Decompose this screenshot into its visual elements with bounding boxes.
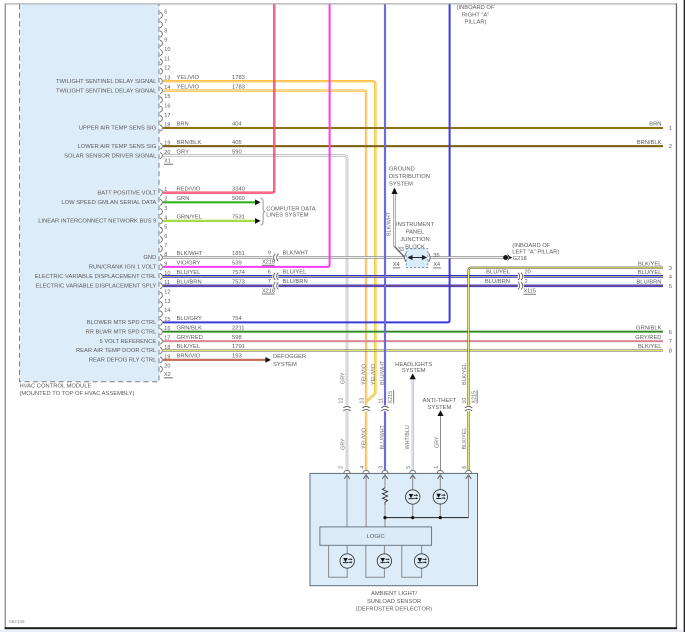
svg-text:WHT/BLU: WHT/BLU <box>405 425 411 449</box>
svg-text:DEFOGGER: DEFOGGER <box>273 354 306 360</box>
drawing number 562146 <box>9 619 25 624</box>
wire YEL/VIO 1783 pin13 X1 (to splice) <box>163 75 375 402</box>
logic block (sensor) <box>320 527 432 545</box>
label inboard of right A pillar <box>456 5 494 26</box>
svg-text:LOWER AIR TEMP SENS SIG: LOWER AIR TEMP SENS SIG <box>78 144 157 150</box>
wire WHT/BLU headlights drop to sensor pin 5 <box>412 379 414 473</box>
svg-text:SUNLOAD SENSOR: SUNLOAD SENSOR <box>367 599 421 605</box>
HVAC control module U1 (box) <box>20 4 160 381</box>
svg-text:ELECTRIC VARIABLE DISPLACEMENT: ELECTRIC VARIABLE DISPLACEMENT SPLY <box>35 284 156 290</box>
svg-text:7: 7 <box>164 19 167 25</box>
svg-text:16: 16 <box>164 104 170 110</box>
svg-text:UPPER AIR TEMP SENS SIG: UPPER AIR TEMP SENS SIG <box>79 126 157 132</box>
svg-text:5: 5 <box>164 225 167 231</box>
svg-text:SYSTEM: SYSTEM <box>273 362 297 368</box>
svg-text:6: 6 <box>164 10 167 16</box>
svg-text:ANTI-THEFT: ANTI-THEFT <box>422 398 456 404</box>
photodiode D5 output loop (sensor) <box>402 545 429 577</box>
ambient light / sunload sensor (box) <box>310 473 478 585</box>
svg-text:COMPUTER DATA: COMPUTER DATA <box>266 206 316 212</box>
sensor internal bus with junction dots <box>383 516 468 519</box>
svg-text:YEL/VIO: YEL/VIO <box>177 84 200 90</box>
svg-text:20: 20 <box>525 270 531 276</box>
svg-text:754: 754 <box>232 316 242 322</box>
svg-text:TWILIGHT SENTINEL DELAY SIGNAL: TWILIGHT SENTINEL DELAY SIGNAL <box>56 79 157 85</box>
labels after X215/X216 connectors <box>283 251 309 285</box>
svg-text:13: 13 <box>360 398 366 404</box>
svg-text:1: 1 <box>669 126 672 132</box>
svg-text:GRN/BLK: GRN/BLK <box>636 325 662 331</box>
HVAC control module caption <box>20 383 135 397</box>
arrow to anti-theft system <box>437 410 443 416</box>
svg-text:(INBOARD OF: (INBOARD OF <box>512 243 550 249</box>
svg-text:GRY: GRY <box>340 438 346 450</box>
svg-text:10: 10 <box>462 398 468 404</box>
svg-text:GRN/YEL: GRN/YEL <box>177 215 203 221</box>
svg-text:10: 10 <box>164 47 170 53</box>
svg-text:BRN: BRN <box>177 122 189 128</box>
brace computer data lines system <box>261 198 266 225</box>
svg-text:BLK/YEL: BLK/YEL <box>638 344 662 350</box>
svg-text:BLK/WHT: BLK/WHT <box>386 211 392 236</box>
wire GRN/BLK 2211 pin16 X2 to right edge <box>163 325 663 331</box>
svg-text:11: 11 <box>379 398 385 404</box>
svg-text:X115: X115 <box>524 289 536 295</box>
svg-text:REAR DEFOG RLY CTRL: REAR DEFOG RLY CTRL <box>89 358 157 364</box>
svg-text:20: 20 <box>164 364 170 370</box>
svg-text:6: 6 <box>669 330 672 336</box>
wire GRY 590 pin20 X1 to sensor pin 2 <box>163 149 347 473</box>
label inboard of left A pillar <box>512 243 559 256</box>
arrow to ground distribution system <box>391 188 397 194</box>
svg-text:598: 598 <box>232 335 242 341</box>
label ground distribution system <box>389 167 430 188</box>
svg-text:15: 15 <box>164 94 170 100</box>
connector X216 pin 7 (inline) <box>268 279 279 290</box>
svg-text:BLK/YEL: BLK/YEL <box>462 363 468 385</box>
svg-text:35: 35 <box>433 253 439 259</box>
rotated wire labels below X215 and on sensor feeds <box>340 425 468 450</box>
svg-text:6: 6 <box>462 466 468 469</box>
svg-text:GRY: GRY <box>340 372 346 384</box>
svg-text:3340: 3340 <box>232 186 245 192</box>
svg-text:GRY/RED: GRY/RED <box>635 335 661 341</box>
svg-text:SYSTEM: SYSTEM <box>427 405 451 411</box>
svg-text:GRY/RED: GRY/RED <box>177 335 203 341</box>
svg-text:(MOUNTED TO TOP OF HVAC ASSEMB: (MOUNTED TO TOP OF HVAC ASSEMBLY) <box>20 391 135 397</box>
junction block pin 33 bracket <box>398 247 406 262</box>
connector X216 label <box>262 288 275 294</box>
svg-text:9: 9 <box>268 251 271 257</box>
wire YEL/VIO 1783 pin14 X1 (to sensor pin 4) <box>163 84 366 473</box>
svg-text:LOGIC: LOGIC <box>367 534 385 540</box>
wire GRN/YEL 7531 pin4 X2 <box>163 215 256 221</box>
svg-text:HEADLIGHTS: HEADLIGHTS <box>395 362 432 368</box>
wire BLU/BRN 7573 pin11 X2 to right edge <box>163 280 663 286</box>
svg-text:X4: X4 <box>393 262 400 268</box>
svg-text:5 VOLT REFERENCE: 5 VOLT REFERENCE <box>99 339 156 345</box>
svg-text:DISTRIBUTION: DISTRIBUTION <box>389 174 430 180</box>
svg-text:1783: 1783 <box>232 75 245 81</box>
svg-text:BLK/WHT: BLK/WHT <box>283 251 309 257</box>
svg-text:SOLAR SENSOR DRIVER SIGNAL: SOLAR SENSOR DRIVER SIGNAL <box>64 153 157 159</box>
wire BLK/WHT ground branch vertical <box>395 189 405 257</box>
svg-text:X216: X216 <box>262 288 275 294</box>
svg-text:2211: 2211 <box>232 325 244 331</box>
svg-text:JUNCTION: JUNCTION <box>400 237 429 243</box>
wire BLK/WHT junction block to G218 <box>430 256 505 258</box>
svg-text:PILLAR): PILLAR) <box>465 20 487 26</box>
svg-text:3: 3 <box>669 266 672 272</box>
junction block internal bus double arrow <box>407 255 427 260</box>
sensor caption <box>356 591 432 612</box>
svg-text:6: 6 <box>268 270 271 276</box>
svg-text:BRN/BLK: BRN/BLK <box>177 140 202 146</box>
HVAC module connector X2 pins 1-20 (brackets and numbers) <box>160 187 173 378</box>
connector X215 pin 9 (inline) <box>268 251 279 262</box>
svg-text:GRN: GRN <box>177 196 190 202</box>
svg-text:33: 33 <box>398 247 404 253</box>
svg-text:RIGHT “A”: RIGHT “A” <box>462 12 489 18</box>
svg-text:HVAC CONTROL MODULE: HVAC CONTROL MODULE <box>20 383 92 389</box>
svg-text:YEL/VIO: YEL/VIO <box>371 364 377 385</box>
svg-text:BLU/YEL: BLU/YEL <box>283 270 308 276</box>
svg-text:1: 1 <box>434 466 440 469</box>
svg-text:1783: 1783 <box>232 84 245 90</box>
svg-text:AMBIENT LIGHT/: AMBIENT LIGHT/ <box>371 591 417 597</box>
svg-text:5060: 5060 <box>232 196 245 202</box>
svg-text:BLOWER MTR SPD CTRL: BLOWER MTR SPD CTRL <box>87 320 157 326</box>
svg-text:3: 3 <box>164 206 167 212</box>
svg-text:TWILIGHT SENTINEL DELAY SIGNAL: TWILIGHT SENTINEL DELAY SIGNAL <box>56 88 157 94</box>
connector X215 pin 10 (BLK/YEL vertical) <box>462 398 472 412</box>
svg-text:BLU/BRN: BLU/BRN <box>177 280 202 286</box>
svg-text:BLK/YEL: BLK/YEL <box>462 428 468 450</box>
wire BLU/GRY 754 pin15 X2 riser to top <box>163 4 450 322</box>
sensor pin sockets and arrows <box>344 470 472 479</box>
svg-text:REAR AIR TEMP DOOR CTRL: REAR AIR TEMP DOOR CTRL <box>76 348 157 354</box>
svg-text:1791: 1791 <box>232 344 245 350</box>
svg-text:RUN/CRANK IGN 1 VOLT: RUN/CRANK IGN 1 VOLT <box>89 265 157 271</box>
connector X115 label <box>524 289 537 295</box>
ground G218 <box>503 254 527 262</box>
svg-text:BLK/YEL: BLK/YEL <box>177 344 201 350</box>
svg-text:X215: X215 <box>262 260 275 266</box>
svg-text:2: 2 <box>669 144 672 150</box>
svg-text:539: 539 <box>232 261 242 267</box>
svg-text:3: 3 <box>379 466 385 469</box>
wire BLU/YEL 7574 pin10 X2 to right edge <box>163 270 663 276</box>
wire BLK/WHT 1851 pin8 X2 to junction block <box>163 251 405 257</box>
HVAC module connector X1 pins 6-20 (brackets and numbers) <box>160 10 173 165</box>
label anti-theft system <box>422 398 456 411</box>
connector X215 pin 13 (YEL/VIO vertical) <box>360 398 370 412</box>
svg-text:7: 7 <box>669 339 672 345</box>
connector X216 pin 6 (inline) <box>268 270 279 281</box>
svg-text:BLU/GRY: BLU/GRY <box>177 316 202 322</box>
wire RED/VIO 3340 pin1 X2 riser to top <box>163 4 274 192</box>
svg-text:BLU/YEL: BLU/YEL <box>486 270 511 276</box>
svg-text:BLU/WHT: BLU/WHT <box>380 360 386 385</box>
sensor pin numbers <box>339 466 468 469</box>
svg-text:7: 7 <box>268 279 271 285</box>
junction block X4 labels <box>393 262 441 268</box>
label headlights system <box>395 362 432 374</box>
wire GRY anti-theft drop to sensor pin 1 <box>440 415 441 473</box>
wire BRN/BLK 405 pin19 X1 to right edge <box>163 140 663 146</box>
wire GRN 5060 pin2 X2 <box>163 196 256 202</box>
svg-text:RED/VIO: RED/VIO <box>177 186 201 192</box>
svg-text:BLU/BRN: BLU/BRN <box>283 279 308 285</box>
svg-text:7: 7 <box>164 243 167 249</box>
photodiode D2 (sensor, pin1) <box>433 490 447 504</box>
svg-text:(INBOARD OF: (INBOARD OF <box>456 5 494 11</box>
svg-text:RR BLWR MTR SPD CTRL: RR BLWR MTR SPD CTRL <box>86 329 158 335</box>
connector X115 pin 2 (inline) <box>518 279 528 290</box>
label defogger system <box>273 354 306 368</box>
wire VIO/GRY 539 pin9 X2 riser to top <box>163 4 330 267</box>
svg-text:GND: GND <box>143 255 156 261</box>
arrow to computer data lines (pin2) <box>255 199 261 205</box>
right edge wire labels and circuit numbers 1-8 <box>635 122 673 355</box>
svg-text:LOW SPEED GMLAN SERIAL DATA: LOW SPEED GMLAN SERIAL DATA <box>61 200 156 206</box>
rotated wire labels above X215 <box>340 360 468 385</box>
svg-text:PANEL: PANEL <box>406 230 425 236</box>
svg-text:7531: 7531 <box>232 215 245 221</box>
svg-text:7573: 7573 <box>232 280 245 286</box>
svg-text:GRN/BLK: GRN/BLK <box>177 325 203 331</box>
svg-text:SYSTEM: SYSTEM <box>402 368 426 374</box>
HVAC module pin signal labels <box>35 79 157 364</box>
photodiode D4 output loop (sensor) <box>366 545 392 577</box>
svg-text:VIO/GRY: VIO/GRY <box>177 261 201 267</box>
svg-text:4: 4 <box>360 466 366 469</box>
svg-text:8: 8 <box>669 349 672 355</box>
photodiode D1 (sensor, pin5) <box>406 490 420 504</box>
svg-text:13: 13 <box>164 299 170 305</box>
svg-text:5: 5 <box>669 284 672 290</box>
resistor R1 (sensor) <box>382 488 387 505</box>
arrow to defogger system <box>265 357 271 363</box>
label BLK/WHT on ground branch <box>386 211 392 236</box>
svg-text:X2: X2 <box>164 372 171 378</box>
connector X215 pin 11 (BLU/WHT vertical) <box>379 398 389 411</box>
wire BLK/YEL right edge line 3 to sensor pin 6 <box>469 268 664 474</box>
connector X115 pin 20 (inline) <box>518 270 531 281</box>
svg-text:193: 193 <box>232 354 242 360</box>
svg-text:BRN: BRN <box>649 122 661 128</box>
svg-text:GRY: GRY <box>435 436 441 448</box>
svg-text:BRN/VIO: BRN/VIO <box>177 354 201 360</box>
svg-text:BLU/YEL: BLU/YEL <box>638 270 663 276</box>
svg-text:ELECTRIC VARIABLE DISPLACEMENT: ELECTRIC VARIABLE DISPLACEMENT CTRL <box>35 274 157 280</box>
svg-text:LEFT “A” PILLAR): LEFT “A” PILLAR) <box>512 249 559 255</box>
photodiode D3 output loop (sensor) <box>329 545 355 577</box>
svg-text:590: 590 <box>232 149 242 155</box>
svg-text:404: 404 <box>232 122 242 128</box>
svg-text:YEL/VIO: YEL/VIO <box>362 364 368 385</box>
svg-text:GRY: GRY <box>177 149 190 155</box>
svg-text:BLU/WHT: BLU/WHT <box>380 425 386 450</box>
svg-text:(DEFROSTER DEFLECTOR): (DEFROSTER DEFLECTOR) <box>356 607 432 613</box>
svg-text:405: 405 <box>232 140 242 146</box>
svg-text:9: 9 <box>164 38 167 44</box>
svg-text:LINES SYSTEM: LINES SYSTEM <box>266 212 308 218</box>
wire BLK/YEL 1791 pin18 X2 to right edge <box>163 344 663 350</box>
svg-text:17: 17 <box>164 113 170 119</box>
svg-text:BRN/BLK: BRN/BLK <box>637 140 662 146</box>
arrow to headlights system <box>410 373 416 379</box>
wire GRY/RED 598 pin17 X2 to right edge <box>163 335 663 341</box>
svg-text:INSTRUMENT: INSTRUMENT <box>396 222 434 228</box>
svg-text:562146: 562146 <box>9 619 25 624</box>
svg-text:GROUND: GROUND <box>389 167 415 173</box>
svg-text:SYSTEM: SYSTEM <box>389 181 413 187</box>
svg-text:6: 6 <box>164 234 167 240</box>
svg-text:BLU/BRN: BLU/BRN <box>485 279 510 285</box>
wire BLU/WHT vertical from top to sensor pin 3 <box>384 4 386 473</box>
svg-text:BLU/YEL: BLU/YEL <box>177 270 202 276</box>
junction block pin 35 bracket <box>429 253 440 262</box>
svg-text:5: 5 <box>406 466 412 469</box>
instrument panel junction block (dashed bus box) <box>406 249 428 268</box>
svg-text:11: 11 <box>164 56 170 62</box>
svg-text:BLU/BRN: BLU/BRN <box>636 280 661 286</box>
wire BRN/VIO 193 pin19 X2 to defogger arrow <box>163 354 266 360</box>
svg-text:2: 2 <box>339 466 345 469</box>
svg-text:BLK/YEL: BLK/YEL <box>638 261 662 267</box>
svg-text:14: 14 <box>164 308 170 314</box>
svg-text:7574: 7574 <box>232 270 246 276</box>
wire BRN 404 pin18 X1 to right edge <box>163 122 663 128</box>
sensor internal feed lines <box>347 475 470 527</box>
svg-text:12: 12 <box>164 290 170 296</box>
label computer data lines system <box>266 206 316 218</box>
svg-text:BATT POSITIVE VOLT: BATT POSITIVE VOLT <box>97 190 156 196</box>
svg-text:X1: X1 <box>164 159 171 165</box>
labels before X115 <box>485 270 511 285</box>
svg-text:BLK/WHT: BLK/WHT <box>177 251 203 257</box>
label instrument panel junction block <box>396 222 434 250</box>
arrow to computer data lines (pin4) <box>255 218 261 224</box>
svg-text:12: 12 <box>339 398 345 404</box>
svg-text:YEL/VIO: YEL/VIO <box>362 428 368 449</box>
svg-text:G218: G218 <box>513 256 527 262</box>
svg-text:8: 8 <box>164 28 167 34</box>
connector X215 rotated labels <box>388 390 478 403</box>
connector X215 label <box>262 260 275 266</box>
svg-text:YEL/VIO: YEL/VIO <box>177 75 200 81</box>
connector X215 pin 12 (GRY vertical) <box>339 398 351 412</box>
svg-text:X4: X4 <box>433 262 440 268</box>
svg-text:2: 2 <box>525 279 528 285</box>
svg-text:1851: 1851 <box>232 251 245 257</box>
svg-text:12: 12 <box>164 66 170 72</box>
svg-text:LINEAR INTERCONNECT NETWORK BU: LINEAR INTERCONNECT NETWORK BUS 9 <box>38 219 156 225</box>
